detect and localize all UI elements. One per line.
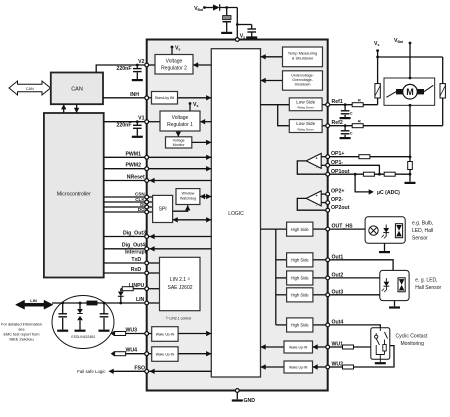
- svg-text:RxD: RxD: [131, 267, 142, 273]
- svg-text:WU4: WU4: [125, 348, 137, 354]
- svg-text:OP2-: OP2-: [331, 197, 343, 203]
- svg-text:INH: INH: [130, 92, 139, 98]
- svg-text:ESDLIN1524BJ: ESDLIN1524BJ: [71, 335, 95, 339]
- svg-text:Regulator 1: Regulator 1: [167, 122, 193, 128]
- svg-text:FSO: FSO: [134, 365, 145, 371]
- svg-text:Voltage: Voltage: [172, 115, 189, 121]
- svg-text:Wake Up-IN: Wake Up-IN: [156, 333, 175, 337]
- svg-text:CAN: CAN: [71, 87, 83, 93]
- svg-text:Undervoltage-: Undervoltage-: [291, 74, 314, 78]
- svg-text:LIN 2.1 1): LIN 2.1 1): [170, 277, 190, 284]
- svg-text:Relay Driver: Relay Driver: [297, 106, 314, 110]
- svg-text:Microcontroller: Microcontroller: [57, 192, 91, 198]
- svg-text:GND: GND: [244, 398, 256, 404]
- svg-text:WU3: WU3: [125, 328, 137, 334]
- svg-text:High Side: High Side: [291, 276, 310, 281]
- svg-text:Window: Window: [182, 192, 195, 196]
- svg-text:SAE J2602: SAE J2602: [167, 285, 192, 291]
- svg-text:Regulator 2: Regulator 2: [161, 66, 187, 72]
- svg-text:µC (ADC): µC (ADC): [377, 190, 400, 196]
- svg-text:Monitoring: Monitoring: [401, 341, 425, 347]
- svg-text:OP2+: OP2+: [331, 189, 344, 195]
- svg-text:e. g. LED,: e. g. LED,: [415, 278, 437, 284]
- svg-text:Low Side: Low Side: [296, 121, 315, 126]
- svg-text:Dig_Out4/: Dig_Out4/: [122, 243, 147, 249]
- svg-text:SPI: SPI: [159, 207, 167, 213]
- svg-text:LIN: LIN: [136, 297, 145, 303]
- svg-text:Sensor: Sensor: [412, 236, 428, 242]
- svg-text:Overvoltage-: Overvoltage-: [292, 78, 313, 82]
- svg-text:CAN: CAN: [26, 87, 34, 91]
- svg-text:220nF: 220nF: [117, 66, 132, 72]
- svg-text:220nF: 220nF: [117, 123, 132, 129]
- svg-text:High Side: High Side: [291, 323, 310, 328]
- svg-text:V1: V1: [138, 116, 144, 122]
- svg-text:V2: V2: [138, 59, 144, 65]
- svg-text:PWM2: PWM2: [125, 163, 141, 169]
- svg-text:e.g. Bulb,: e.g. Bulb,: [412, 220, 433, 226]
- svg-text:Wake Up-IN: Wake Up-IN: [289, 365, 308, 369]
- svg-text:High Side: High Side: [291, 227, 310, 232]
- svg-text:Watchdog: Watchdog: [180, 196, 196, 200]
- svg-text:Wake Up-IN: Wake Up-IN: [156, 353, 175, 357]
- svg-text:M: M: [406, 87, 414, 97]
- svg-text:TxD: TxD: [131, 257, 141, 263]
- svg-text:High Side: High Side: [291, 258, 310, 263]
- svg-text:Cyclic Contact: Cyclic Contact: [396, 333, 429, 339]
- svg-text:LIN: LIN: [30, 298, 37, 303]
- svg-text:CSN: CSN: [135, 192, 145, 197]
- svg-text:LOGIC: LOGIC: [228, 211, 244, 217]
- svg-text:Hall Sensor: Hall Sensor: [415, 285, 441, 291]
- svg-text:High Side: High Side: [291, 293, 310, 298]
- svg-text:NReset: NReset: [127, 175, 145, 181]
- svg-text:Monitor: Monitor: [173, 143, 186, 147]
- svg-text:Interrupt: Interrupt: [125, 250, 147, 256]
- svg-text:OP2out: OP2out: [331, 205, 350, 211]
- svg-text:Voltage: Voltage: [166, 59, 183, 65]
- svg-text:IBEE Zwickau: IBEE Zwickau: [9, 337, 33, 342]
- svg-text:Stand-by Bit: Stand-by Bit: [155, 96, 175, 100]
- svg-text:Fail safe Logic: Fail safe Logic: [77, 369, 106, 374]
- svg-text:Low Side: Low Side: [296, 100, 315, 105]
- svg-text:C: C: [350, 131, 353, 135]
- svg-text:& Shutdown: & Shutdown: [292, 56, 314, 61]
- svg-text:Shutdown: Shutdown: [295, 83, 311, 87]
- svg-text:Dig_Out3: Dig_Out3: [123, 231, 146, 237]
- svg-text:R: R: [358, 99, 361, 103]
- svg-text:1)LIN2.1 control: 1)LIN2.1 control: [166, 316, 191, 321]
- svg-text:R: R: [358, 120, 361, 124]
- svg-text:Relay Driver: Relay Driver: [297, 127, 314, 131]
- svg-text:Voltage: Voltage: [173, 138, 185, 142]
- svg-text:C: C: [350, 111, 353, 115]
- svg-text:Wake Up-IN: Wake Up-IN: [289, 345, 308, 349]
- svg-text:LED, Hall: LED, Hall: [412, 228, 433, 234]
- svg-text:PWM1: PWM1: [125, 151, 141, 157]
